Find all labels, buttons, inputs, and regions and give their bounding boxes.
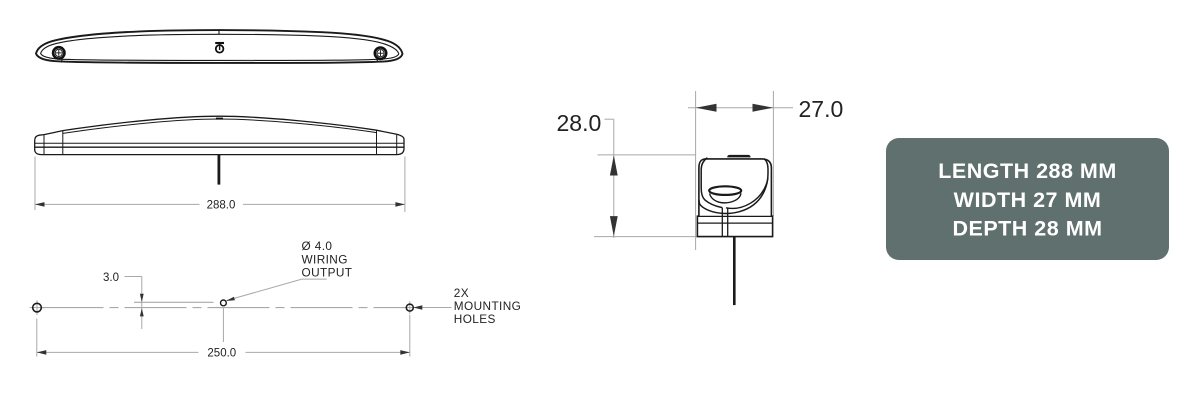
side view inner top curve — [63, 119, 377, 133]
27.0 arrow left — [696, 104, 717, 112]
right mounting hole — [403, 301, 416, 314]
side view wire — [218, 155, 221, 185]
dim 250.0 line — [37, 351, 199, 353]
svg-text:28.0: 28.0 — [557, 110, 602, 136]
leader to wiring label — [227, 279, 302, 300]
side view seam right 1 — [376, 130, 378, 154]
end view base line 1 — [697, 215, 772, 217]
top view inner outline — [41, 34, 399, 60]
end view lens bowl rim — [710, 193, 741, 203]
side view seam right 2 — [396, 134, 398, 154]
dim 288.0 arrow left — [35, 202, 45, 207]
svg-text:288.0: 288.0 — [207, 200, 236, 212]
svg-text:MOUNTING: MOUNTING — [454, 299, 521, 313]
end view lens cup line — [701, 158, 722, 208]
27.0 extension left — [695, 91, 697, 250]
side view base line 2 — [35, 146, 404, 148]
end view channel line left — [721, 208, 723, 237]
dim 3.0 leader — [125, 276, 142, 278]
dim 288.0 extension right — [404, 157, 406, 213]
side view outer outline — [35, 116, 404, 154]
dim 288.0 line — [35, 203, 200, 205]
svg-text:2X: 2X — [454, 286, 469, 300]
28.0 arrow up — [610, 155, 618, 175]
dim 250.0 arrow right — [400, 350, 410, 355]
svg-text:Ø 4.0: Ø 4.0 — [302, 239, 333, 253]
end view top tab — [727, 155, 750, 158]
spec box — [886, 138, 1169, 260]
svg-text:OUTPUT: OUTPUT — [302, 266, 353, 280]
side view cap seam left — [43, 135, 45, 155]
end view wire — [733, 237, 736, 306]
svg-text:3.0: 3.0 — [103, 272, 119, 284]
left mounting hole — [30, 300, 45, 315]
27.0 arrow right — [753, 104, 774, 112]
dim 3.0 arrow down — [140, 294, 144, 302]
end view swoosh inner — [726, 179, 768, 209]
right screw — [375, 48, 386, 59]
dim 3.0 arrow up — [140, 308, 144, 316]
svg-text:WIRING: WIRING — [302, 252, 348, 266]
leader arrowhead — [226, 297, 235, 301]
center wiring mark — [215, 43, 224, 53]
dim 250.0 arrow left — [37, 350, 47, 355]
top view outer outline — [36, 30, 403, 63]
28.0 dim line — [613, 119, 615, 238]
end view channel line right — [727, 208, 729, 237]
dim 250.0 extension left — [36, 319, 38, 357]
svg-text:250.0: 250.0 — [207, 348, 236, 360]
top view bottom seam right — [376, 59, 379, 62]
centerline — [42, 307, 406, 309]
svg-text:DEPTH 28 MM: DEPTH 28 MM — [952, 217, 1102, 241]
28.0 arrow down — [610, 216, 618, 236]
27.0 dim line — [688, 107, 773, 109]
28.0 extension bottom — [594, 236, 697, 238]
end view body outline — [697, 159, 772, 237]
dim 288.0 arrow right — [395, 202, 405, 207]
svg-text:27.0: 27.0 — [799, 96, 844, 122]
svg-text:HOLES: HOLES — [454, 312, 496, 326]
end view lens ellipse — [709, 186, 741, 195]
wiring offset line — [134, 301, 214, 303]
side view seam left — [62, 131, 64, 155]
end view swoosh outer — [699, 159, 768, 214]
wiring output hole — [221, 300, 227, 306]
28.0 leader from text — [605, 118, 614, 120]
top view center seam tick — [218, 30, 220, 34]
top view bottom seam left — [60, 59, 63, 62]
end view base line 2 — [697, 222, 772, 224]
svg-text:WIDTH 27 MM: WIDTH 27 MM — [954, 188, 1102, 212]
left screw — [53, 47, 64, 58]
27.0 extension right — [772, 91, 774, 216]
leader to mounting holes label — [416, 307, 452, 309]
dim 288.0 extension left — [34, 157, 36, 211]
side view peak slot tick — [216, 118, 223, 120]
svg-text:LENGTH 288 MM: LENGTH 288 MM — [938, 159, 1117, 183]
wiring hole drop line — [222, 306, 224, 342]
side view base line 1 — [35, 142, 404, 144]
28.0 extension top — [598, 154, 696, 156]
dim 250.0 extension right — [409, 315, 411, 357]
